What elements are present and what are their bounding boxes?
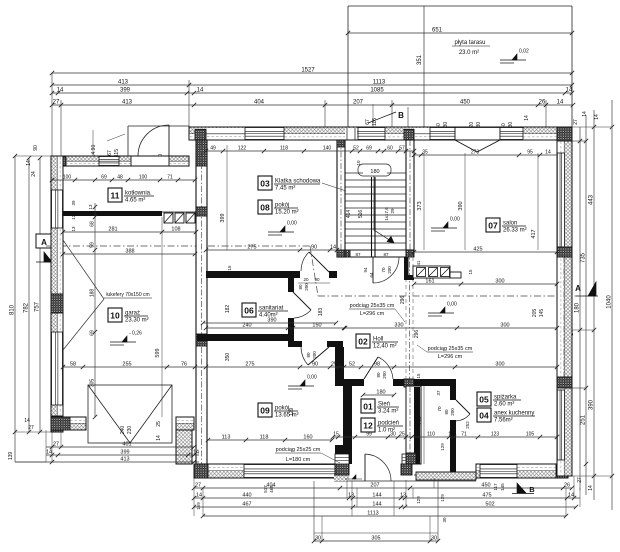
svg-text:160: 160 bbox=[303, 435, 312, 441]
svg-text:425: 425 bbox=[473, 247, 482, 253]
svg-text:71: 71 bbox=[167, 175, 173, 181]
svg-text:100: 100 bbox=[139, 175, 148, 181]
svg-text:139: 139 bbox=[8, 452, 14, 461]
room 02 holl label bbox=[356, 334, 370, 348]
svg-text:180: 180 bbox=[370, 169, 379, 175]
svg-text:Sień: Sień bbox=[378, 402, 390, 408]
kotlownia boiler boxes bbox=[164, 213, 173, 223]
kitchen counter squares bbox=[417, 268, 426, 277]
corner column kotlownia junction bbox=[196, 140, 207, 166]
svg-text:80: 80 bbox=[444, 409, 449, 415]
svg-text:3.24 m²: 3.24 m² bbox=[378, 409, 398, 415]
svg-text:118: 118 bbox=[260, 435, 269, 441]
svg-text:pokój: pokój bbox=[275, 406, 289, 412]
bottom wall window anex bbox=[480, 465, 517, 478]
svg-text:69: 69 bbox=[366, 146, 372, 152]
svg-text:273: 273 bbox=[471, 150, 480, 156]
wall room09/hall vertical bbox=[335, 347, 344, 386]
dim row room09 113 118 160 bbox=[208, 439, 332, 441]
svg-text:80: 80 bbox=[376, 372, 381, 378]
svg-text:14: 14 bbox=[196, 493, 202, 499]
section marker B top bbox=[368, 112, 396, 123]
svg-text:450: 450 bbox=[481, 483, 490, 489]
svg-text:30: 30 bbox=[315, 536, 321, 542]
top wall window W3 salon bbox=[430, 128, 455, 140]
svg-text:161: 161 bbox=[425, 279, 434, 285]
svg-text:180: 180 bbox=[376, 390, 385, 396]
block at sanitariat junction bbox=[196, 334, 207, 346]
left dim col 757 bbox=[39, 158, 41, 432]
stair left wall block bottom bbox=[337, 250, 345, 257]
svg-text:30: 30 bbox=[390, 432, 396, 438]
svg-text:70: 70 bbox=[381, 267, 386, 273]
left wall window kotlownia bbox=[52, 190, 63, 228]
svg-text:390: 390 bbox=[267, 318, 276, 324]
svg-text:68: 68 bbox=[90, 221, 96, 227]
svg-text:57: 57 bbox=[399, 146, 405, 152]
svg-text:kotłownia.: kotłownia. bbox=[125, 191, 152, 197]
top wall corner block right bbox=[557, 127, 572, 141]
svg-text:98: 98 bbox=[374, 362, 380, 368]
room 01 sien label bbox=[361, 399, 375, 413]
svg-text:417: 417 bbox=[531, 229, 537, 238]
room 03 klatka schodowa label bbox=[258, 176, 272, 190]
sien top wall right segment bbox=[393, 379, 406, 386]
svg-text:anex kuchenny: anex kuchenny bbox=[494, 411, 534, 417]
bottom dim row B4 bbox=[194, 487, 572, 489]
svg-text:05: 05 bbox=[479, 395, 489, 405]
svg-text:salon: salon bbox=[503, 221, 517, 227]
section marker B bottom bbox=[517, 483, 526, 493]
svg-text:296: 296 bbox=[400, 296, 406, 305]
svg-text:27: 27 bbox=[195, 483, 201, 489]
svg-text:401: 401 bbox=[122, 442, 131, 448]
svg-text:25: 25 bbox=[331, 362, 337, 368]
bottom dim row B6 bbox=[194, 506, 576, 508]
svg-text:467: 467 bbox=[242, 502, 251, 508]
svg-text:41: 41 bbox=[416, 260, 421, 266]
svg-text:76: 76 bbox=[181, 362, 187, 368]
svg-text:296: 296 bbox=[414, 330, 420, 339]
svg-text:399: 399 bbox=[120, 88, 131, 94]
svg-text:15: 15 bbox=[416, 373, 421, 379]
level mark hall bbox=[428, 312, 454, 314]
door hall-sien leaf+arc bbox=[364, 357, 378, 379]
svg-text:27: 27 bbox=[53, 442, 59, 448]
left extension lines bbox=[15, 155, 51, 157]
left wall window garage bbox=[52, 332, 63, 405]
svg-text:łukefery 70x150 cm: łukefery 70x150 cm bbox=[106, 292, 149, 298]
svg-text:275: 275 bbox=[247, 245, 256, 251]
svg-text:150: 150 bbox=[312, 323, 321, 329]
svg-text:90: 90 bbox=[311, 245, 317, 251]
wall sien left bbox=[343, 379, 352, 464]
svg-text:200: 200 bbox=[382, 371, 387, 379]
svg-text:94: 94 bbox=[363, 267, 368, 273]
svg-text:251: 251 bbox=[581, 414, 587, 425]
svg-text:1527: 1527 bbox=[301, 68, 315, 74]
svg-text:30: 30 bbox=[442, 517, 447, 523]
svg-text:404: 404 bbox=[254, 100, 265, 106]
right extension lines bbox=[572, 126, 612, 128]
stair left wall bbox=[337, 140, 345, 257]
stair treads bbox=[345, 172, 406, 174]
stair walk line with arrow bbox=[374, 176, 394, 243]
svg-text:440: 440 bbox=[242, 493, 251, 499]
svg-text:390: 390 bbox=[589, 399, 595, 410]
svg-text:1113: 1113 bbox=[373, 80, 386, 86]
bottom dim row 305 bbox=[314, 532, 438, 534]
svg-text:300: 300 bbox=[495, 279, 504, 285]
svg-text:10: 10 bbox=[110, 311, 120, 321]
right wall window salon bbox=[557, 153, 564, 247]
svg-text:14: 14 bbox=[193, 450, 199, 456]
svg-text:15: 15 bbox=[338, 362, 344, 368]
stair walk line loop bbox=[358, 164, 391, 176]
svg-text:1113: 1113 bbox=[367, 511, 378, 517]
svg-text:26: 26 bbox=[564, 483, 570, 489]
top wall window W2 stairwell bbox=[358, 128, 385, 140]
svg-text:207: 207 bbox=[353, 100, 364, 106]
svg-text:14: 14 bbox=[24, 418, 30, 424]
svg-text:145: 145 bbox=[500, 483, 505, 491]
svg-text:351: 351 bbox=[417, 54, 423, 65]
svg-text:10: 10 bbox=[356, 160, 361, 166]
room 11 kotlownia label bbox=[108, 188, 122, 202]
svg-text:11: 11 bbox=[111, 191, 120, 201]
svg-text:25: 25 bbox=[399, 432, 405, 438]
left wall block bottom bbox=[51, 416, 63, 432]
svg-text:69: 69 bbox=[101, 175, 107, 181]
svg-text:230: 230 bbox=[127, 426, 133, 435]
svg-text:105: 105 bbox=[526, 432, 535, 438]
garage side wall connector down bbox=[176, 430, 192, 464]
svg-text:14: 14 bbox=[566, 88, 573, 94]
svg-text:25: 25 bbox=[156, 421, 162, 427]
svg-text:13.65 m²: 13.65 m² bbox=[275, 413, 299, 419]
garage lukefery leader lines bbox=[63, 240, 104, 299]
svg-text:87: 87 bbox=[355, 252, 361, 257]
svg-text:06: 06 bbox=[244, 306, 254, 316]
svg-text:1085: 1085 bbox=[370, 88, 384, 94]
garage vertical dim col x95 bbox=[94, 203, 96, 417]
svg-text:200: 200 bbox=[387, 266, 392, 274]
svg-text:200: 200 bbox=[304, 283, 309, 291]
dim row 281 108 bbox=[63, 231, 196, 233]
right dim col 735 251 bbox=[585, 115, 587, 495]
svg-text:100: 100 bbox=[63, 175, 72, 181]
svg-text:117: 117 bbox=[493, 483, 498, 491]
garage bottom wall right jamb bbox=[176, 417, 194, 430]
bottom dim row B5 bbox=[194, 497, 580, 499]
svg-text:15: 15 bbox=[288, 323, 294, 329]
svg-text:414: 414 bbox=[346, 210, 352, 219]
svg-text:2.60 m²: 2.60 m² bbox=[494, 402, 514, 408]
sanitariat bottom wall bbox=[197, 334, 288, 341]
block sien top right bbox=[404, 379, 414, 387]
svg-text:4.65 m²: 4.65 m² bbox=[125, 198, 145, 204]
svg-text:07: 07 bbox=[488, 221, 498, 231]
svg-text:240: 240 bbox=[120, 426, 126, 435]
dim row hall 330 300 bbox=[345, 327, 557, 329]
svg-text:300: 300 bbox=[500, 323, 509, 329]
svg-text:04: 04 bbox=[479, 411, 489, 421]
podcien column block left bbox=[335, 464, 349, 475]
open boundary hall/salon dashed bbox=[405, 257, 407, 379]
bottom wall right part bbox=[476, 464, 568, 478]
svg-text:14: 14 bbox=[26, 160, 32, 166]
svg-text:120: 120 bbox=[71, 212, 76, 220]
salon terrace door opening bbox=[455, 128, 500, 140]
room 05 spizarka label bbox=[477, 392, 491, 406]
svg-text:27: 27 bbox=[28, 425, 34, 431]
svg-text:B: B bbox=[529, 485, 535, 494]
wall garage/rooms vertical x196-207 bbox=[196, 140, 207, 464]
entrance door leaf+arc bbox=[364, 454, 366, 481]
svg-text:443: 443 bbox=[589, 194, 595, 205]
svg-text:0,00: 0,00 bbox=[307, 375, 317, 381]
kitchen counter outline bbox=[413, 266, 450, 278]
right dim col 443 390 bbox=[593, 110, 595, 500]
left wall band bbox=[51, 156, 63, 432]
svg-text:13: 13 bbox=[88, 204, 93, 210]
entrance level mark bbox=[345, 478, 362, 480]
svg-text:183: 183 bbox=[318, 308, 324, 317]
dim row salon 425 bbox=[414, 251, 557, 253]
dim row 1527 bbox=[52, 72, 572, 74]
room 10 garaz label bbox=[108, 308, 122, 322]
room 06 sanitariat label bbox=[242, 303, 256, 317]
room 12 podcien label bbox=[361, 418, 375, 432]
dim row 388 garage top bbox=[63, 253, 195, 255]
svg-text:145: 145 bbox=[539, 309, 545, 318]
svg-text:27: 27 bbox=[53, 100, 60, 106]
svg-text:182: 182 bbox=[225, 305, 231, 314]
svg-text:413: 413 bbox=[118, 80, 129, 86]
top wall window W4 salon bbox=[500, 128, 523, 140]
dim row 390 sanit/09 bbox=[203, 322, 336, 324]
right dim col 1040 bbox=[611, 100, 613, 510]
svg-text:516: 516 bbox=[358, 210, 364, 219]
svg-text:122: 122 bbox=[238, 146, 247, 152]
kitchen counter extension bbox=[450, 272, 461, 278]
kotlownia entry door opening bbox=[131, 157, 169, 166]
right wall block 3 bbox=[557, 377, 572, 388]
svg-text:7.45 m²: 7.45 m² bbox=[275, 186, 295, 192]
kotlownia bottom wall bbox=[63, 211, 162, 216]
svg-text:129: 129 bbox=[416, 496, 421, 504]
svg-text:14: 14 bbox=[330, 245, 336, 251]
garage bottom wall left segment bbox=[51, 417, 86, 430]
leader from label 03 to stairs bbox=[322, 183, 346, 191]
svg-text:20: 20 bbox=[303, 277, 309, 282]
dim row inside top wall left bbox=[206, 150, 414, 152]
svg-text:24: 24 bbox=[31, 171, 37, 177]
svg-text:13: 13 bbox=[71, 226, 76, 232]
svg-text:26: 26 bbox=[539, 100, 546, 106]
svg-text:podciąg 25x35 cm: podciąg 25x35 cm bbox=[350, 303, 395, 309]
right dim col 180 inner bbox=[579, 127, 581, 490]
svg-text:255: 255 bbox=[122, 362, 131, 368]
bottom wall block left bbox=[194, 464, 208, 478]
block sien wall bottom bbox=[406, 453, 416, 464]
right wall window anex bbox=[557, 390, 564, 460]
door room08-hall leaf+arc bbox=[309, 252, 329, 272]
svg-text:pokój: pokój bbox=[275, 203, 289, 209]
room 04 anex label bbox=[477, 408, 491, 422]
svg-text:123: 123 bbox=[491, 432, 500, 438]
svg-text:14: 14 bbox=[568, 493, 574, 499]
bottom wall block right of window bbox=[335, 464, 347, 478]
bottom wall window room09 bbox=[244, 465, 335, 478]
svg-text:281: 281 bbox=[108, 227, 117, 233]
kotlownia top wall band bbox=[51, 156, 189, 166]
sanitariat right wall lower bbox=[288, 318, 294, 341]
svg-text:180: 180 bbox=[575, 302, 581, 313]
stair dim 180 bbox=[363, 166, 387, 175]
section line A-A bbox=[46, 245, 310, 247]
svg-text:52: 52 bbox=[349, 362, 355, 368]
right wall axis dash bbox=[563, 257, 565, 377]
dim row sanit 20 90 bbox=[298, 282, 330, 284]
room09 top wall right corner bbox=[327, 341, 343, 347]
svg-text:15: 15 bbox=[468, 269, 473, 275]
stair right wall bbox=[406, 140, 414, 250]
spizarka wall upper bbox=[450, 386, 456, 400]
svg-text:15: 15 bbox=[227, 265, 232, 271]
dim row inside top wall salon bbox=[414, 154, 557, 156]
top wall white niche x414-430 bbox=[415, 128, 431, 139]
svg-text:14: 14 bbox=[197, 88, 204, 94]
svg-text:30: 30 bbox=[431, 536, 437, 542]
svg-text:200: 200 bbox=[312, 351, 317, 359]
dim sien 180 bbox=[363, 394, 394, 396]
dim row 413 1113 bbox=[52, 84, 572, 86]
svg-text:51: 51 bbox=[343, 432, 349, 438]
svg-text:67: 67 bbox=[107, 150, 113, 156]
svg-text:13: 13 bbox=[348, 493, 354, 499]
svg-text:12: 12 bbox=[363, 421, 373, 431]
svg-text:27: 27 bbox=[577, 477, 583, 483]
kotlownia entry door leaf+arc bbox=[168, 125, 170, 156]
svg-text:59: 59 bbox=[90, 242, 96, 248]
room09 top wall piece bbox=[288, 341, 302, 347]
svg-text:188: 188 bbox=[90, 289, 96, 298]
svg-text:144: 144 bbox=[372, 493, 381, 499]
svg-text:L=296 cm: L=296 cm bbox=[438, 354, 463, 360]
svg-text:237: 237 bbox=[417, 415, 423, 424]
svg-text:300: 300 bbox=[495, 362, 504, 368]
svg-text:502: 502 bbox=[485, 502, 494, 508]
kotlownia recess outline bbox=[128, 125, 189, 127]
svg-text:399: 399 bbox=[120, 450, 129, 456]
svg-text:02: 02 bbox=[358, 337, 368, 347]
garage bottom wall left block bbox=[51, 417, 70, 430]
svg-text:płyta tarasu: płyta tarasu bbox=[454, 40, 485, 46]
terrace level mark 0,02 bbox=[500, 59, 526, 61]
stair left wall top block bbox=[337, 140, 345, 147]
top wall block at stair wall bbox=[404, 130, 414, 141]
svg-text:podciąg 25x25 cm: podciąg 25x25 cm bbox=[276, 447, 321, 453]
anex recessed slab band bbox=[416, 472, 476, 480]
svg-text:15: 15 bbox=[448, 432, 454, 438]
dim row y367 long bbox=[63, 366, 557, 368]
svg-text:1x17,6: 1x17,6 bbox=[384, 207, 389, 221]
svg-text:7.56m²: 7.56m² bbox=[494, 418, 513, 424]
garage door V swing lines bbox=[88, 385, 130, 443]
svg-text:240: 240 bbox=[242, 323, 251, 329]
top wall corner block left bbox=[195, 130, 206, 141]
svg-text:275: 275 bbox=[245, 362, 254, 368]
dim row kitchen 161 300 bbox=[414, 283, 557, 285]
svg-text:413: 413 bbox=[122, 100, 133, 106]
garage vertical line 599 bbox=[161, 217, 163, 417]
dim 651 terrace bbox=[348, 32, 572, 34]
svg-text:113: 113 bbox=[222, 435, 231, 441]
svg-text:129: 129 bbox=[440, 443, 445, 451]
stair stringer bbox=[371, 177, 373, 257]
svg-text:404: 404 bbox=[266, 483, 275, 489]
svg-text:305: 305 bbox=[371, 536, 380, 542]
svg-text:14: 14 bbox=[156, 435, 162, 441]
svg-text:200: 200 bbox=[450, 408, 455, 416]
sien wall jog piece bbox=[335, 445, 352, 454]
svg-text:390: 390 bbox=[458, 201, 464, 210]
dim row kotlownia top bbox=[52, 179, 195, 181]
svg-text:27: 27 bbox=[573, 119, 579, 125]
svg-text:14: 14 bbox=[588, 485, 594, 491]
top wall window W1 bbox=[245, 128, 284, 140]
dim row 14 399 14 1085 14 bbox=[52, 92, 572, 94]
svg-text:podciąg 25x35 cm: podciąg 25x35 cm bbox=[428, 346, 473, 352]
svg-text:14: 14 bbox=[582, 111, 588, 117]
terrace slab outline bbox=[348, 5, 572, 7]
section marker A left bbox=[36, 234, 52, 248]
level mark room08 bbox=[268, 231, 294, 233]
spizarka wall lower bbox=[450, 420, 456, 472]
kotlownia top wall window bbox=[99, 157, 119, 166]
svg-text:0,00: 0,00 bbox=[447, 302, 457, 308]
anex top wall bbox=[414, 379, 456, 386]
svg-text:144: 144 bbox=[372, 502, 381, 508]
block kotlownia wall junction bbox=[196, 207, 207, 216]
svg-text:205: 205 bbox=[532, 309, 538, 318]
left dim col 782 bbox=[28, 158, 30, 432]
svg-text:49: 49 bbox=[210, 146, 216, 152]
svg-text:08: 08 bbox=[260, 203, 270, 213]
svg-text:01: 01 bbox=[363, 402, 373, 412]
svg-text:159: 159 bbox=[196, 502, 201, 510]
svg-text:58: 58 bbox=[70, 362, 76, 368]
svg-text:475: 475 bbox=[482, 493, 491, 499]
svg-text:810: 810 bbox=[10, 304, 16, 315]
svg-text:29: 29 bbox=[390, 208, 395, 214]
wall room08 bottom right stub bbox=[329, 271, 337, 278]
door hall-room09 leaf+arc bbox=[308, 347, 329, 365]
sien top wall left segment bbox=[343, 379, 364, 386]
svg-text:03: 03 bbox=[260, 179, 270, 189]
svg-text:60: 60 bbox=[387, 146, 393, 152]
svg-text:podcień: podcień bbox=[378, 421, 399, 427]
svg-text:14: 14 bbox=[594, 114, 600, 120]
svg-text:129: 129 bbox=[289, 408, 295, 417]
svg-text:14: 14 bbox=[57, 88, 64, 94]
svg-text:23.0 m²: 23.0 m² bbox=[459, 50, 479, 56]
svg-text:A: A bbox=[575, 284, 581, 293]
svg-text:1040: 1040 bbox=[607, 295, 613, 309]
level mark sien bbox=[288, 385, 314, 387]
stair right wall block bottom bbox=[406, 250, 414, 257]
